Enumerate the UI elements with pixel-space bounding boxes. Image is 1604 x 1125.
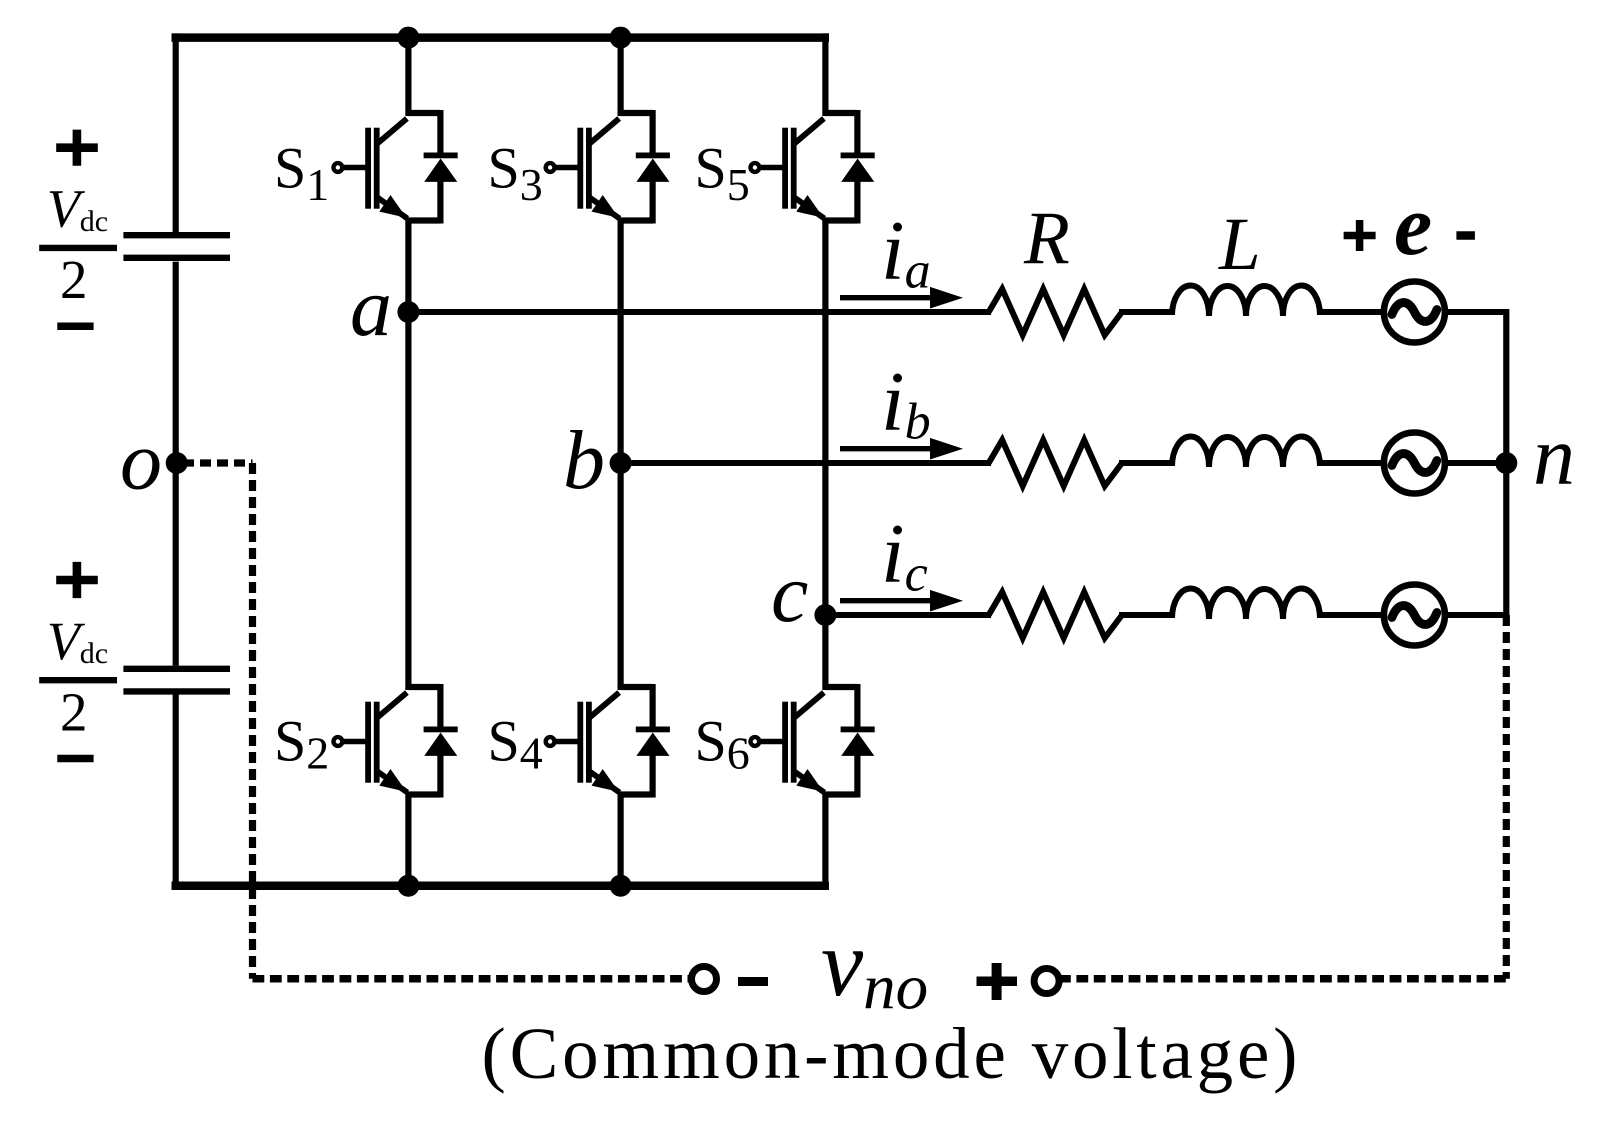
dashed wire: right vertical of common-mode path <box>1503 615 1510 979</box>
inductor L phase b <box>1172 436 1320 467</box>
junction dot top bus leg a <box>397 27 419 49</box>
resistor R phase b <box>989 440 1122 486</box>
capacitor C2 (Vdc/2 lower) <box>123 669 230 692</box>
svg-text:b: b <box>563 414 605 507</box>
svg-text:R: R <box>1023 197 1070 280</box>
wire: left DC link vertical (upper) <box>173 33 179 232</box>
resistor R phase a <box>989 289 1122 335</box>
dashed wire: from node o to common-mode tap (horizontal) <box>183 459 253 466</box>
current arrow ic <box>840 590 963 612</box>
node a dot <box>397 301 419 323</box>
svg-text:e: e <box>1394 177 1432 273</box>
node c dot <box>814 604 836 626</box>
wire: phase leg a vertical <box>405 38 411 886</box>
svg-text:a: a <box>350 261 392 354</box>
wire: bottom DC bus <box>172 881 830 890</box>
svg-text:L: L <box>1218 203 1261 286</box>
AC source e phase b <box>1384 433 1445 494</box>
AC source e phase a <box>1384 282 1445 343</box>
wire: phase leg c vertical <box>822 33 828 890</box>
node n dot <box>1495 452 1517 474</box>
transistor S3 (IGBT with anti-parallel diode) <box>546 110 670 224</box>
AC source e phase c <box>1384 585 1445 646</box>
label + Vdc/2 - (upper capacitor) <box>39 130 117 327</box>
inductor L phase a <box>1172 285 1320 316</box>
junction dot bottom bus leg a <box>397 875 419 897</box>
transistor S6 (IGBT with anti-parallel diode) <box>751 684 875 798</box>
svg-text:n: n <box>1533 410 1575 503</box>
transistor S5 (IGBT with anti-parallel diode) <box>751 110 875 224</box>
dashed wire: bottom left horizontal of common-mode path <box>253 975 692 983</box>
node o dot <box>166 452 188 474</box>
junction dot top bus leg b <box>610 27 632 49</box>
capacitor C1 (Vdc/2 upper) <box>123 235 230 258</box>
wire: left DC link vertical (middle, through node o) <box>173 262 179 666</box>
transistor S1 (IGBT with anti-parallel diode) <box>334 110 458 224</box>
svg-text:(Common-mode voltage): (Common-mode voltage) <box>482 1013 1302 1094</box>
label + of vno <box>977 963 1018 1000</box>
terminal circle - (vno minus) <box>692 967 717 992</box>
current arrow ib <box>840 438 963 460</box>
wire: phase c output <box>825 612 1509 618</box>
wire: phase leg b vertical <box>617 38 623 886</box>
node b dot <box>610 452 632 474</box>
label - of e <box>1456 231 1475 240</box>
resistor R phase c <box>989 592 1122 638</box>
dashed wire: left vertical of common-mode path <box>249 463 256 979</box>
svg-text:o: o <box>120 415 162 508</box>
current arrow ia <box>840 287 963 309</box>
wire: left DC link vertical (lower) <box>173 694 179 890</box>
terminal circle + (vno plus) <box>1034 969 1059 994</box>
transistor S4 (IGBT with anti-parallel diode) <box>546 684 670 798</box>
label + Vdc/2 - (lower capacitor) <box>39 562 117 759</box>
wire: phase b output <box>621 460 1509 466</box>
wire: phase a output <box>408 309 1509 315</box>
inductor L phase c <box>1172 588 1320 619</box>
wire: top DC bus <box>172 33 830 42</box>
label + of e <box>1344 220 1376 251</box>
wire: right vertical to neutral n <box>1503 309 1509 615</box>
dashed wire: bottom right horizontal of common-mode path <box>1059 975 1506 983</box>
label - of vno <box>738 977 768 986</box>
svg-text:c: c <box>771 547 808 640</box>
transistor S2 (IGBT with anti-parallel diode) <box>334 684 458 798</box>
junction dot bottom bus leg b <box>610 875 632 897</box>
